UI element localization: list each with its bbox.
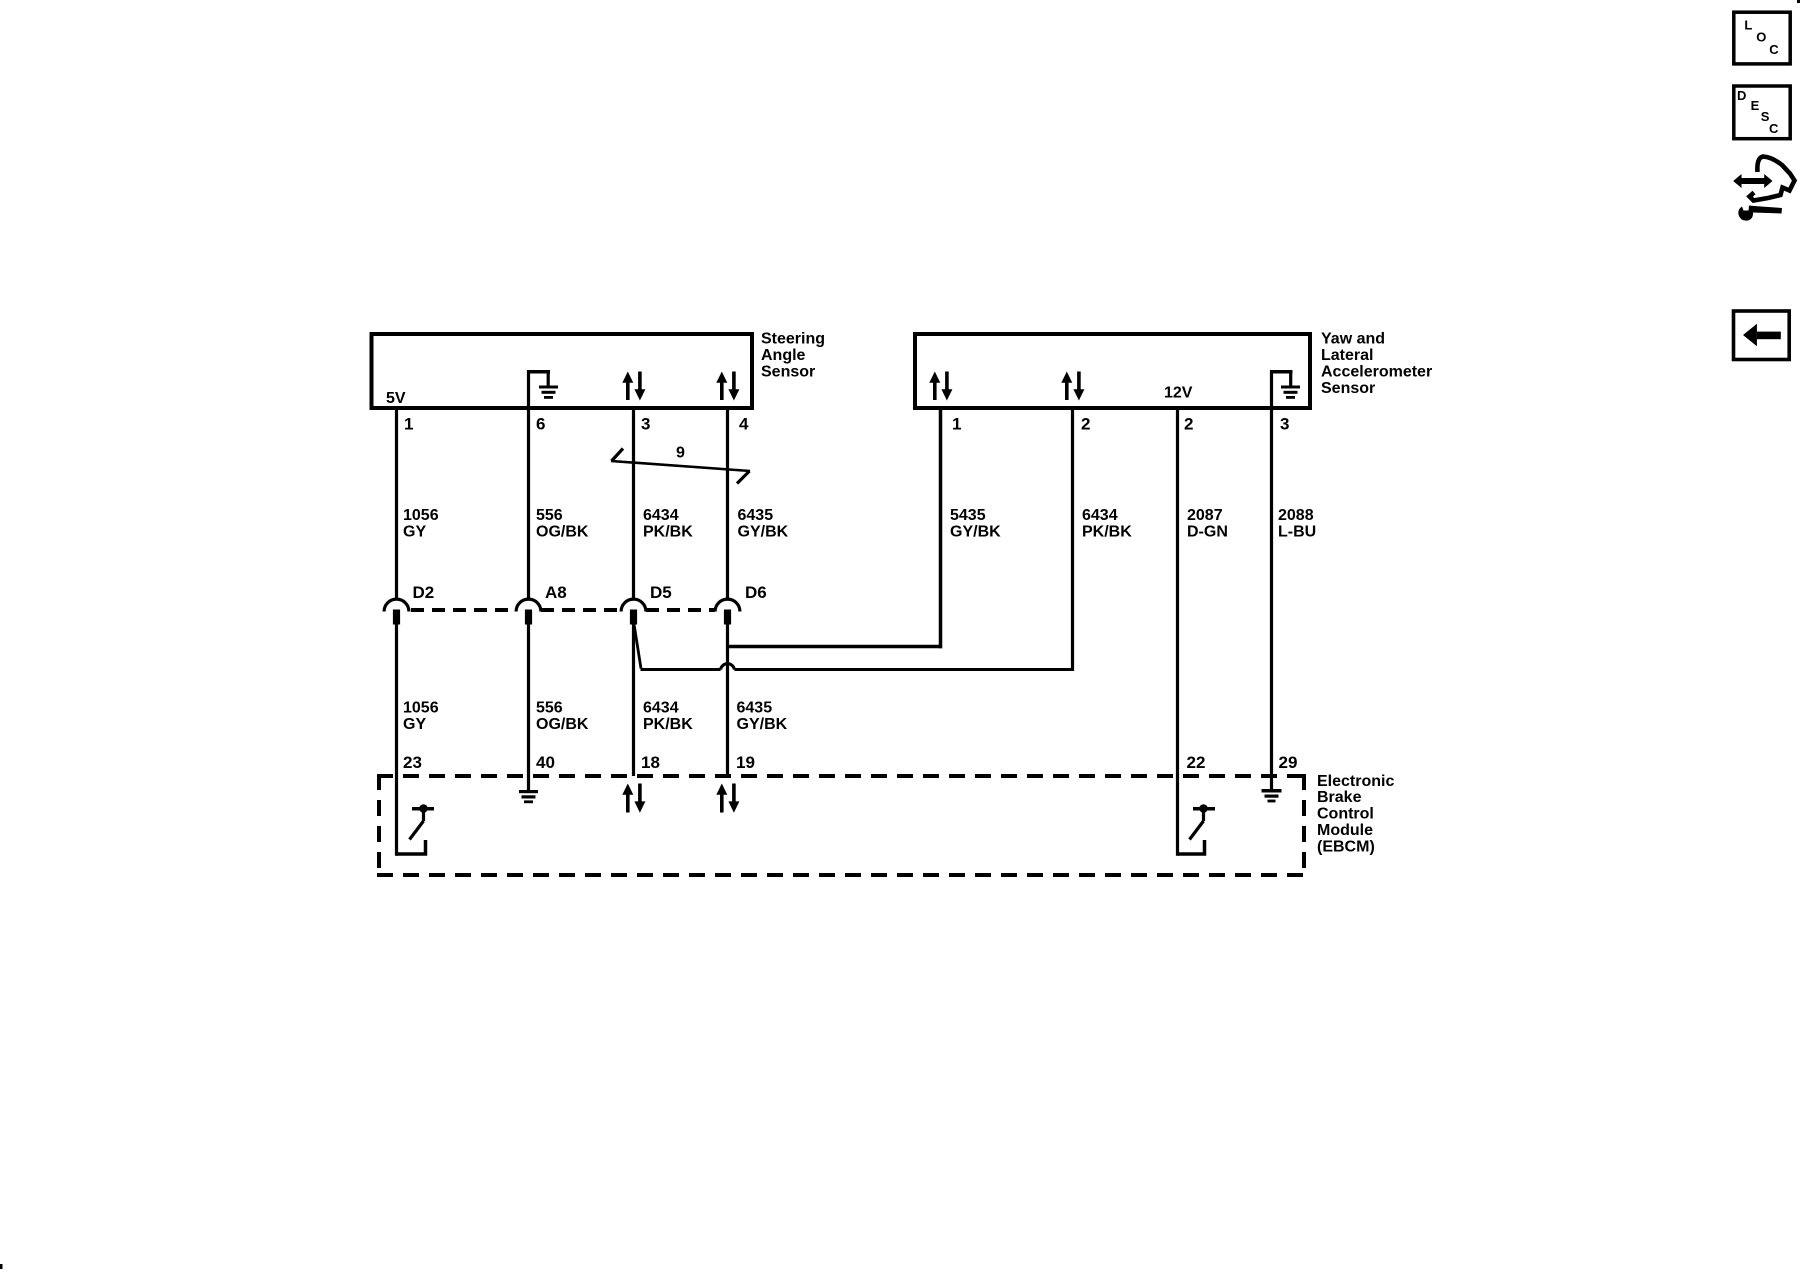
svg-text:(EBCM): (EBCM) <box>1317 838 1375 855</box>
svg-text:29: 29 <box>1279 753 1298 772</box>
svg-text:OG/BK: OG/BK <box>536 716 589 733</box>
label: wire 556 OG/BK (upper) <box>536 507 589 541</box>
svg-text:Module: Module <box>1317 822 1373 839</box>
svg-text:Control: Control <box>1317 806 1374 823</box>
svg-text:Accelerometer: Accelerometer <box>1321 364 1432 381</box>
svg-text:18: 18 <box>641 753 660 772</box>
svg-text:6435: 6435 <box>737 699 773 716</box>
svg-text:9: 9 <box>676 445 685 462</box>
svg-text:O: O <box>1756 30 1766 45</box>
wire 6434 PK/BK lower segment (connector D5 to EBCM pin 18) <box>632 624 635 776</box>
page corner mark bottom left <box>0 1264 3 1269</box>
svg-text:GY/BK: GY/BK <box>738 523 789 540</box>
label: Electronic Brake Control Module (EBCM) <box>1317 773 1394 856</box>
svg-text:GY: GY <box>403 523 426 540</box>
outline arrow of diagnostic icon <box>1750 157 1795 201</box>
wire branch 6435 GY/BK / 5435 GY/BK from connector D6 to yaw pin 1 <box>728 645 943 649</box>
label: wire 6434 PK/BK (upper) <box>643 507 693 541</box>
wire 556 OG/BK lower segment (connector A8 to EBCM pin 40) <box>527 624 530 776</box>
wire 1056 GY upper segment (steering pin 1 to connector D2) <box>395 410 398 600</box>
svg-text:5V: 5V <box>386 390 406 407</box>
svg-text:Sensor: Sensor <box>761 364 815 381</box>
back navigation box with left arrow (right side) <box>1734 311 1790 360</box>
wire branch 6434 PK/BK from connector D5 to yaw pin 2 (with hop over D6 wire) <box>634 624 1074 670</box>
connector D5 <box>621 599 646 624</box>
double-arrow symbol inside EBCM at pin 19 <box>716 784 739 813</box>
driver/switch symbol inside EBCM at pin 23 <box>397 776 435 856</box>
label: wire 6435 GY/BK (lower) <box>737 699 788 733</box>
svg-text:Sensor: Sensor <box>1321 380 1375 397</box>
label: wire 5435 GY/BK (yaw pin 1) <box>950 507 1001 541</box>
svg-text:23: 23 <box>403 753 422 772</box>
svg-text:40: 40 <box>536 753 555 772</box>
svg-text:GY: GY <box>403 716 426 733</box>
label: Steering Angle Sensor <box>761 331 825 381</box>
double-headed horizontal arrow of diagnostic icon <box>1741 178 1766 184</box>
svg-text:2: 2 <box>1184 415 1193 434</box>
svg-text:Lateral: Lateral <box>1321 347 1373 364</box>
svg-text:19: 19 <box>736 753 755 772</box>
double-arrow symbol in yaw box at pin 2 <box>1061 372 1084 401</box>
double-arrow symbol in yaw box at pin 1 <box>929 372 952 401</box>
svg-text:1: 1 <box>952 415 961 434</box>
ground symbol inside EBCM at pin 40 <box>519 776 538 803</box>
wrench of diagnostic icon <box>1738 206 1782 221</box>
svg-text:1: 1 <box>404 415 413 434</box>
svg-text:C: C <box>1769 121 1779 136</box>
svg-text:OG/BK: OG/BK <box>536 523 589 540</box>
inline connector dashed line (harness connector row) <box>411 608 715 612</box>
connector D2 <box>384 599 409 624</box>
svg-text:6434: 6434 <box>643 699 679 716</box>
svg-text:2: 2 <box>1081 415 1090 434</box>
svg-text:C: C <box>1769 42 1779 57</box>
connector D6 <box>715 599 740 624</box>
LOC navigation box (top right) <box>1734 12 1790 64</box>
svg-text:L: L <box>1744 18 1752 33</box>
svg-text:556: 556 <box>536 507 563 524</box>
svg-text:GY/BK: GY/BK <box>737 716 788 733</box>
wire 556 OG/BK upper segment (steering pin 6 to connector A8) <box>527 410 530 600</box>
svg-text:2088: 2088 <box>1278 507 1314 524</box>
svg-text:Angle: Angle <box>761 347 806 364</box>
wire 2088 L-BU (yaw pin 3 to EBCM pin 29) <box>1270 410 1273 776</box>
svg-text:L-BU: L-BU <box>1278 523 1316 540</box>
callout 9 leader arrow across wires 3 and 4 <box>611 449 750 484</box>
svg-text:6435: 6435 <box>738 507 774 524</box>
label: wire 2088 L-BU (yaw pin 3) <box>1278 507 1316 541</box>
svg-text:5435: 5435 <box>950 507 986 524</box>
connector A8 <box>516 599 541 624</box>
svg-text:D: D <box>1737 88 1746 103</box>
label: wire 1056 GY (lower) <box>403 699 439 733</box>
svg-text:D2: D2 <box>413 583 435 602</box>
label: wire 6435 GY/BK (upper) <box>738 507 789 541</box>
svg-text:Yaw and: Yaw and <box>1321 331 1385 348</box>
svg-text:556: 556 <box>536 699 563 716</box>
double-arrow symbol inside EBCM at pin 18 <box>622 784 645 813</box>
svg-text:6434: 6434 <box>1082 507 1118 524</box>
svg-text:Brake: Brake <box>1317 789 1362 806</box>
svg-text:3: 3 <box>641 415 650 434</box>
driver/switch symbol inside EBCM at pin 22 <box>1178 776 1216 856</box>
svg-text:Steering: Steering <box>761 331 825 348</box>
component box: Yaw and Lateral Accelerometer Sensor U2 <box>915 334 1310 408</box>
svg-text:6434: 6434 <box>643 507 679 524</box>
svg-text:Electronic: Electronic <box>1317 773 1394 790</box>
svg-text:A8: A8 <box>545 583 567 602</box>
wire 6434 PK/BK upper segment (steering pin 3 to connector D5) <box>632 410 635 600</box>
svg-text:2087: 2087 <box>1187 507 1223 524</box>
svg-text:PK/BK: PK/BK <box>643 716 693 733</box>
svg-text:PK/BK: PK/BK <box>643 523 693 540</box>
ground symbol inside EBCM at pin 29 <box>1262 776 1282 802</box>
svg-text:3: 3 <box>1280 415 1289 434</box>
svg-text:PK/BK: PK/BK <box>1082 523 1132 540</box>
label: wire 1056 GY (upper) <box>403 507 439 541</box>
label: wire 556 OG/BK (lower) <box>536 699 589 733</box>
DESC navigation box (top right) <box>1734 86 1790 139</box>
ground symbol inside yaw box (pin 3) <box>1270 370 1300 410</box>
svg-text:GY/BK: GY/BK <box>950 523 1001 540</box>
svg-text:D-GN: D-GN <box>1187 523 1228 540</box>
diagnostic icon: double arrow, outline arrow and wrench <box>1733 157 1794 221</box>
module box: Electronic Brake Control Module (EBCM) dashed outline <box>377 774 1306 877</box>
svg-text:6: 6 <box>536 415 545 434</box>
svg-text:22: 22 <box>1187 753 1206 772</box>
svg-text:1056: 1056 <box>403 699 439 716</box>
page corner mark top right <box>1797 0 1800 3</box>
label: wire 6434 PK/BK (lower) <box>643 699 693 733</box>
label: wire 6434 PK/BK (yaw pin 2) <box>1082 507 1132 541</box>
wire 5435 GY/BK vertical (yaw pin 1) <box>939 410 943 648</box>
label: wire 2087 D-GN (yaw 12V) <box>1187 507 1228 541</box>
svg-text:12V: 12V <box>1164 385 1193 402</box>
svg-text:1056: 1056 <box>403 507 439 524</box>
wire 1056 GY lower segment (connector D2 to EBCM pin 23) <box>395 624 398 776</box>
svg-text:E: E <box>1751 98 1760 113</box>
ground symbol inside steering box (pin 6) <box>527 370 558 410</box>
label: Yaw and Lateral Accelerometer Sensor <box>1321 331 1432 397</box>
wire 2087 D-GN (yaw 12V pin to EBCM pin 22) <box>1176 410 1179 776</box>
wire 6435 GY/BK upper segment (steering pin 4 to connector D6) <box>726 410 729 600</box>
svg-text:4: 4 <box>739 415 749 434</box>
svg-text:D5: D5 <box>650 583 672 602</box>
double-arrow symbol in steering box at pin 4 <box>716 372 739 401</box>
svg-text:D6: D6 <box>745 583 767 602</box>
double-arrow symbol in steering box at pin 3 <box>622 372 645 401</box>
wire 6434 PK/BK vertical (yaw pin 2) <box>1071 410 1074 671</box>
wire 6435 GY/BK lower segment (connector D6 to EBCM pin 19) <box>726 624 729 776</box>
component box: Steering Angle Sensor U1 <box>372 334 753 408</box>
